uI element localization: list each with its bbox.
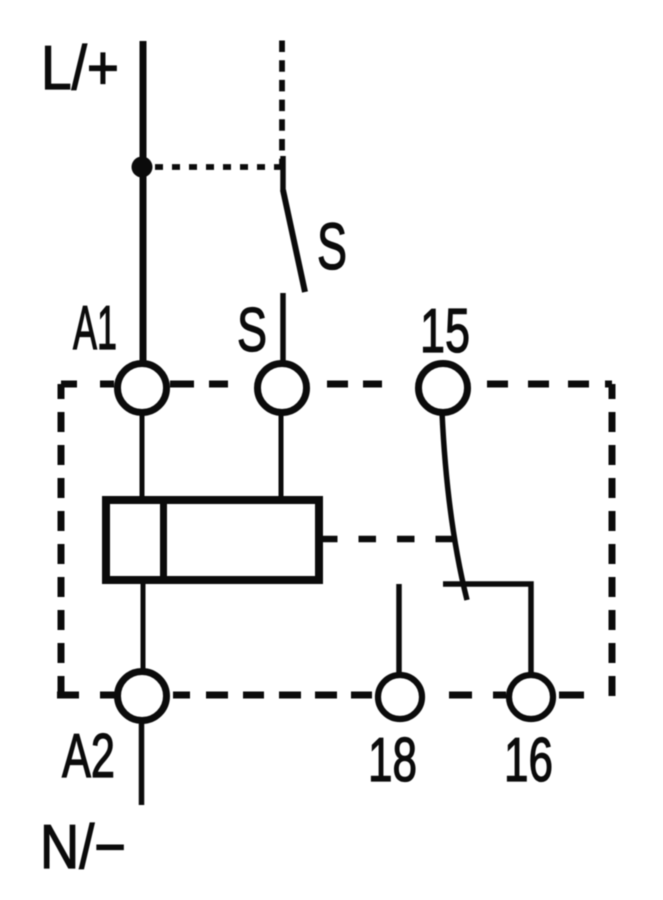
dashed enclosure bottom edge	[57, 692, 584, 699]
terminal S circle	[258, 364, 307, 413]
svg-text:16: 16	[504, 726, 553, 795]
dashed enclosure top edge	[61, 381, 612, 388]
contact stub 18	[396, 584, 402, 673]
relay coil K1 box	[106, 500, 319, 580]
contact blade 15	[442, 412, 467, 600]
dashed actuation link	[320, 536, 456, 543]
wire A2 to N	[139, 722, 145, 805]
dashed enclosure right edge	[606, 384, 612, 698]
wire dotted control vertical	[279, 41, 285, 169]
terminal 16 circle	[509, 675, 553, 719]
switch S blade	[283, 190, 305, 292]
svg-text:S: S	[317, 209, 347, 283]
node junction dot	[132, 157, 153, 178]
wire L/+ main vertical	[140, 41, 147, 361]
svg-text:18: 18	[368, 726, 417, 795]
switch S lower contact wire	[280, 293, 286, 362]
svg-text:A2: A2	[62, 722, 115, 791]
svg-text:A1: A1	[73, 294, 117, 363]
terminal 18 circle	[378, 675, 422, 719]
relay coil divider	[160, 504, 167, 576]
svg-text:S: S	[237, 296, 267, 365]
switch S upper contact stub	[280, 156, 286, 191]
wire coil to A2	[141, 584, 146, 670]
wire dotted control horizontal	[155, 164, 282, 170]
terminal A2 circle	[118, 672, 167, 721]
contact bar to 16	[443, 584, 531, 673]
dashed enclosure left edge	[58, 384, 65, 695]
wire S to coil	[279, 412, 284, 500]
wire A1 to coil	[140, 412, 145, 500]
svg-text:15: 15	[420, 297, 470, 366]
terminal 15 circle	[419, 364, 468, 413]
terminal A1 circle	[118, 364, 167, 413]
svg-text:N/−: N/−	[40, 813, 126, 882]
svg-text:L/+: L/+	[41, 34, 119, 103]
